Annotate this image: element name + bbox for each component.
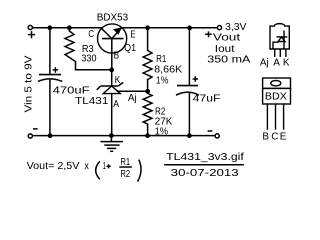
svg-text:A: A — [113, 99, 119, 110]
svg-text:27K: 27K — [155, 116, 173, 127]
svg-text:Iout: Iout — [215, 44, 235, 55]
svg-text:Vout= 2,5V: Vout= 2,5V — [27, 161, 80, 172]
terminal Vout+ — [217, 26, 221, 30]
svg-text:1: 1 — [103, 161, 106, 172]
terminal Vout- — [215, 134, 219, 138]
shunt regulator U1 TL431 — [97, 70, 123, 94]
transistor Q1 BDX53 — [98, 24, 127, 53]
svg-text:C: C — [88, 29, 94, 40]
node C2 bottom — [187, 133, 192, 138]
resistor R2 — [143, 93, 152, 135]
svg-text:8,66K: 8,66K — [154, 65, 182, 76]
capacitor C2 47uF — [176, 28, 199, 136]
node C2 top — [187, 26, 192, 31]
node R1 top — [145, 25, 150, 30]
terminal Vin+ — [28, 25, 32, 29]
svg-text:BDX: BDX — [265, 92, 287, 103]
svg-text:47uF: 47uF — [193, 93, 221, 104]
resistor R1 — [143, 29, 152, 89]
svg-text:B: B — [114, 50, 120, 61]
svg-text:350 mA: 350 mA — [207, 55, 250, 66]
terminal Vin- — [28, 134, 32, 138]
node K — [109, 68, 114, 73]
svg-text:E: E — [130, 29, 135, 40]
svg-text:TL431_3v3.gif: TL431_3v3.gif — [166, 152, 244, 163]
svg-text:Q1: Q1 — [124, 43, 136, 54]
node ground — [109, 133, 114, 138]
svg-text:30-07-2013: 30-07-2013 — [171, 168, 240, 179]
resistor R3 — [65, 29, 112, 70]
svg-text:3,3V: 3,3V — [225, 22, 247, 33]
wire top rail left — [33, 27, 103, 29]
svg-text:1%: 1% — [156, 76, 169, 87]
svg-text:Aj: Aj — [260, 58, 269, 69]
node R2 bottom — [145, 133, 150, 138]
label plus output — [205, 31, 212, 37]
node C1 top — [47, 25, 52, 30]
svg-text:C: C — [271, 132, 278, 143]
svg-text:TL431: TL431 — [75, 96, 109, 107]
ground — [100, 136, 123, 152]
capacitor C1 470uF — [38, 67, 62, 81]
package TO-92 TL431 pinout — [270, 24, 289, 57]
wire Aj tap — [117, 90, 148, 92]
svg-text:R2: R2 — [120, 169, 130, 180]
svg-text:330: 330 — [81, 53, 96, 64]
wire bottom rail — [33, 135, 216, 137]
svg-text:x: x — [84, 161, 89, 172]
wire top rail right — [121, 27, 217, 29]
svg-text:K: K — [283, 58, 290, 69]
wire Q1 base to K node — [111, 39, 113, 70]
svg-text:BDX53: BDX53 — [97, 13, 129, 24]
node R3 top — [67, 25, 72, 30]
label minus output — [208, 130, 213, 132]
node Aj — [145, 89, 150, 94]
formula Vout= 2,5V x (1+ R1/R2) — [27, 157, 141, 182]
svg-text:Vout: Vout — [213, 33, 241, 44]
wire left rail upper — [49, 28, 51, 74]
svg-text:B: B — [262, 132, 269, 143]
svg-text:A: A — [273, 58, 280, 69]
wire left rail lower — [49, 80, 51, 136]
svg-text:R1: R1 — [156, 54, 167, 65]
svg-text:Vin 5 to 9V: Vin 5 to 9V — [23, 55, 34, 112]
wire U1 anode to ground rail — [111, 94, 113, 136]
svg-text:E: E — [280, 132, 287, 143]
svg-text:Aj: Aj — [128, 93, 137, 104]
package TO-220 BDX53 pinout — [263, 78, 291, 130]
label plus input — [28, 31, 35, 38]
label minus input — [33, 128, 38, 130]
title underline — [164, 164, 244, 166]
node C1 bottom — [48, 133, 53, 138]
